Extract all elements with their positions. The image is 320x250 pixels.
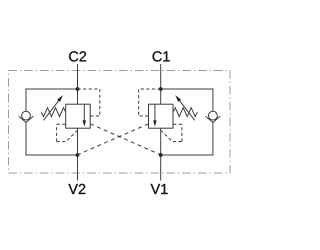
counterbalance valve CB1 adjustment arrow	[175, 95, 195, 120]
pilot line: CB1 spring chamber drain loop	[161, 124, 182, 141]
port C1 label	[153, 51, 170, 61]
counterbalance valve CB1 pilot port tick	[145, 115, 148, 117]
check valve CV2 ball	[22, 111, 31, 120]
wire: right bypass upper branch	[161, 89, 213, 111]
check valve CV1 ball	[209, 111, 218, 120]
check valve CV2 seat	[19, 116, 34, 122]
node: V2 junction	[76, 153, 80, 157]
wire: V1 port stub	[160, 155, 162, 181]
port V1 label	[151, 184, 168, 194]
node: C1 junction	[159, 87, 163, 91]
wire: left bypass upper branch	[26, 89, 78, 111]
pilot line: CB2 spring chamber drain loop	[57, 124, 78, 141]
counterbalance valve CB2 body	[66, 104, 91, 128]
pilot line: CB1 direct pilot from C1	[139, 89, 161, 116]
wire: C1 line to valve box top	[160, 89, 162, 104]
node: C2 junction	[76, 87, 80, 91]
pilot line: CB2 direct pilot from C2	[78, 89, 100, 116]
port V2 label	[68, 184, 85, 194]
node: V1 junction	[159, 153, 163, 157]
enclosure boundary (valve assembly frame)	[9, 71, 231, 174]
counterbalance valve CB2 flow arrow	[83, 104, 86, 126]
pilot line: CB1 cross pilot to V2 junction	[78, 124, 149, 155]
counterbalance valve CB1 flow arrow	[153, 104, 156, 126]
wire: C1 port stub	[160, 64, 162, 89]
counterbalance valve CB2 spring	[41, 108, 65, 117]
check valve CV1 seat	[206, 116, 221, 122]
counterbalance valve CB1 body	[149, 104, 174, 128]
counterbalance valve CB1 spring	[173, 108, 197, 117]
pilot line: CB2 cross pilot to V1 junction	[90, 124, 161, 155]
wire: right bypass lower branch	[161, 123, 213, 156]
counterbalance valve CB2 adjustment arrow	[44, 95, 64, 120]
wire: C2 port stub	[77, 64, 79, 89]
wire: C2 line to valve box top	[77, 89, 79, 104]
wire: V2 port stub	[77, 155, 79, 181]
wire: right valve box bottom to lower junction	[160, 128, 162, 155]
port C2 label	[69, 51, 86, 61]
wire: left bypass lower branch	[26, 123, 78, 156]
counterbalance valve CB2 pilot port tick	[90, 115, 93, 117]
wire: left valve box bottom to lower junction	[77, 128, 79, 155]
